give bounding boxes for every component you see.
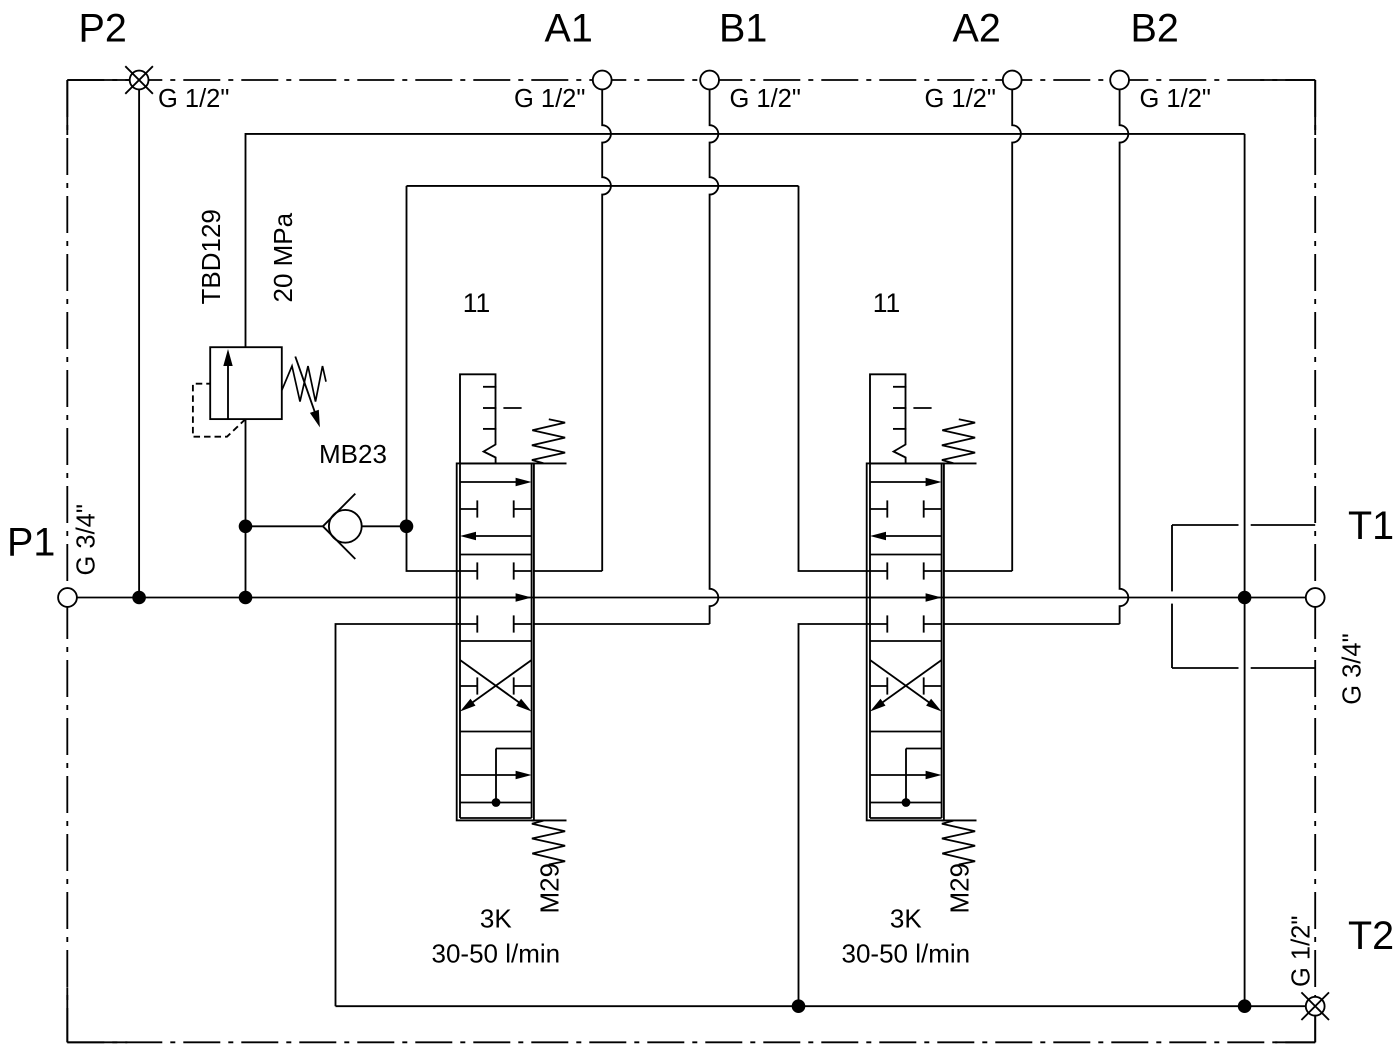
svg-text:T1: T1 — [1348, 504, 1394, 548]
svg-text:G 1/2": G 1/2" — [514, 85, 585, 113]
svg-text:A1: A1 — [545, 7, 593, 51]
wire: port A1 branch — [534, 570, 603, 572]
spool valve position-box stack — [460, 463, 532, 818]
directional spool valve 2 (section 11, 3K spool) — [841, 288, 976, 969]
relief valve flow arrow — [223, 349, 232, 419]
wire: main pump / open-centre line P1-T1 — [77, 597, 1306, 599]
svg-text:G 3/4": G 3/4" — [1339, 633, 1367, 704]
svg-text:P2: P2 — [79, 7, 127, 51]
port T2 (plugged) — [1301, 992, 1329, 1020]
wire: feed line to spool 2 — [407, 185, 799, 187]
port B1 — [700, 71, 719, 90]
junction: relief line / main line — [239, 591, 253, 605]
svg-text:30-50 l/min: 30-50 l/min — [431, 939, 560, 969]
relief valve pilot line (dashed) — [193, 384, 246, 437]
relief valve spring — [282, 366, 326, 402]
position 3: crossed arrows — [460, 660, 519, 703]
check valve MB23 — [323, 494, 362, 559]
port A1 — [593, 71, 612, 90]
svg-text:G 1/2": G 1/2" — [730, 85, 801, 113]
port B2 — [1110, 71, 1129, 90]
wire: relief valve discharge to tank — [246, 134, 1245, 347]
svg-text:11: 11 — [463, 288, 491, 318]
position 4: float — [496, 748, 532, 750]
port P2 (plugged) — [125, 66, 153, 94]
position 2 (neutral): blocked ports, open centre — [460, 570, 477, 572]
wire: port A2 branch — [944, 570, 1013, 572]
T1 junction box outline — [1172, 525, 1315, 668]
position 1: straight arrows — [460, 481, 517, 483]
wire: port B2 riser (hops) — [1120, 89, 1129, 624]
wire: check valve inlet segment — [246, 525, 323, 527]
junction: P2 line / main line — [132, 591, 146, 605]
svg-text:TBD129: TBD129 — [196, 209, 226, 304]
svg-text:20 MPa: 20 MPa — [268, 212, 298, 302]
port A2 — [1003, 71, 1022, 90]
spool centering spring (top) — [532, 462, 567, 464]
spool valve proportional outer frame — [457, 463, 534, 820]
svg-text:G 1/2": G 1/2" — [158, 85, 229, 113]
junction: tank riser / tank line — [1238, 999, 1252, 1013]
relief valve TBD129 body — [210, 347, 282, 419]
svg-text:B2: B2 — [1131, 7, 1179, 51]
wire: P2 riser — [138, 89, 140, 597]
junction: spool2 return / tank line — [792, 999, 806, 1013]
wire: check valve outlet segment — [362, 525, 407, 527]
wire: tank riser T1/T2 — [1244, 134, 1246, 1006]
svg-text:G 1/2": G 1/2" — [1140, 85, 1211, 113]
svg-text:M29: M29 — [534, 863, 564, 914]
svg-text:G 3/4": G 3/4" — [73, 504, 101, 575]
wire: port A1 riser (hops) — [602, 89, 611, 571]
spool return spring M29 (bottom) — [532, 819, 567, 821]
svg-text:B1: B1 — [719, 7, 767, 51]
port T1 — [1306, 588, 1325, 607]
svg-text:A2: A2 — [953, 7, 1001, 51]
svg-text:MB23: MB23 — [319, 439, 387, 469]
svg-text:T2: T2 — [1348, 914, 1394, 958]
svg-text:G 1/2": G 1/2" — [1288, 916, 1316, 987]
directional spool valve 1 (section 11, 3K spool) — [431, 288, 566, 969]
svg-text:G 1/2": G 1/2" — [925, 85, 996, 113]
wire: spool 1 tank return — [336, 624, 461, 1006]
wire: feed riser to spool 2 — [799, 186, 871, 571]
spool actuator box with metering notches — [460, 374, 496, 463]
relief valve adjustment arrow — [295, 357, 320, 428]
wire: relief valve inlet — [245, 419, 247, 597]
junction: check outlet / feed riser — [400, 520, 414, 534]
junction: relief line / check line — [239, 520, 253, 534]
wire: port A2 riser (hop) — [1012, 89, 1021, 571]
wire: port B1 riser (hops) — [710, 89, 719, 624]
port P1 — [58, 588, 77, 607]
junction: main line / tank riser — [1238, 591, 1252, 605]
svg-text:3K: 3K — [480, 904, 512, 934]
wire: spool 2 tank return — [799, 624, 871, 1006]
wire: feed riser to spool 1 — [407, 186, 461, 571]
wire: bottom tank line to T2 — [336, 1005, 1306, 1007]
wire: port B1 branch — [534, 623, 710, 625]
svg-text:P1: P1 — [7, 521, 55, 565]
wire: port B2 branch — [944, 623, 1120, 625]
actuator notch ticks — [483, 386, 497, 388]
